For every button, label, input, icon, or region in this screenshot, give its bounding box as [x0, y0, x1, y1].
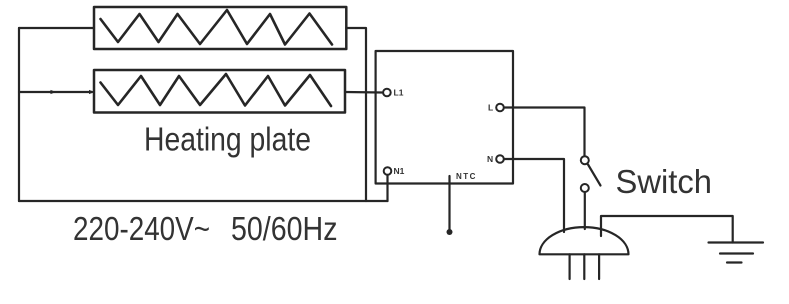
svg-text:L: L	[488, 103, 493, 113]
terminal N	[496, 155, 504, 163]
svg-text:Switch: Switch	[616, 164, 713, 201]
svg-text:N1: N1	[394, 166, 405, 176]
svg-text:N: N	[487, 154, 493, 164]
wire: N terminal to plug	[504, 159, 564, 232]
switch S1 top contact	[581, 156, 589, 164]
wire: left vertical rail	[18, 28, 20, 201]
junction arrow on bottom heater feed	[51, 90, 57, 94]
plug P1 dome	[540, 227, 629, 254]
wire: R1 right lead	[346, 28, 366, 201]
wire: R2 right lead to L1 terminal	[345, 91, 383, 94]
switch S1 bottom contact	[581, 184, 589, 192]
wire: N1 to bottom rail	[386, 175, 388, 201]
svg-text:220-240V~: 220-240V~	[73, 211, 210, 248]
wire: switch to plug	[584, 192, 586, 229]
wire: top heater left feed	[19, 27, 94, 29]
junction arrow at heater R2 box entry	[89, 90, 95, 94]
wire: bottom heater left feed	[19, 91, 92, 93]
heater R2 box	[94, 70, 345, 113]
NTC probe dot	[447, 229, 453, 235]
plug P1 prongs	[568, 254, 570, 279]
wire: L terminal to switch	[504, 108, 585, 157]
heater R1 element	[101, 10, 333, 45]
wire: bottom mains rail	[19, 200, 388, 202]
NTC lead	[448, 176, 450, 230]
switch S1 blade	[588, 165, 601, 186]
terminal N1	[384, 167, 392, 175]
svg-text:50/60Hz: 50/60Hz	[231, 211, 338, 248]
controller U1 box	[376, 51, 513, 184]
svg-text:NTC: NTC	[456, 172, 477, 181]
heater R2 element	[101, 74, 332, 106]
svg-text:Heating plate: Heating plate	[144, 122, 311, 159]
ground symbol	[709, 241, 764, 243]
heater R1 box	[94, 7, 346, 49]
svg-text:L1: L1	[394, 88, 404, 98]
terminal L1	[383, 89, 391, 97]
terminal L	[496, 104, 504, 112]
wire: earth from plug to ground	[601, 216, 733, 243]
